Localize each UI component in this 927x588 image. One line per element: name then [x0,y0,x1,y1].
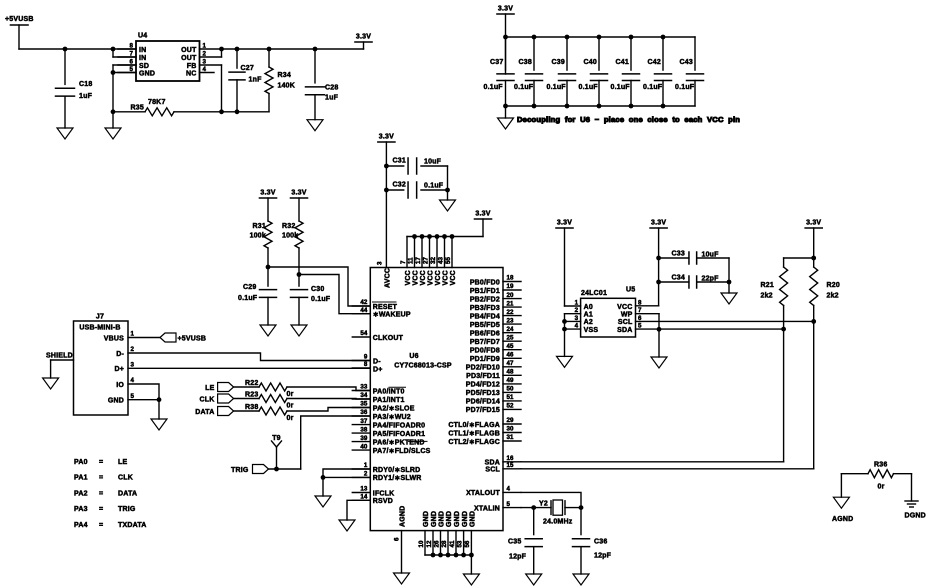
svg-text:29: 29 [507,417,514,424]
svg-text:VCC: VCC [420,270,427,285]
svg-text:3.3V: 3.3V [806,220,821,227]
svg-text:11: 11 [407,257,414,264]
svg-text:CTL0/∗FLAGA: CTL0/∗FLAGA [448,422,500,429]
svg-text:RDY0/∗SLRD: RDY0/∗SLRD [373,467,421,474]
svg-text:0.1uF: 0.1uF [579,84,599,91]
svg-text:CTL2/∗FLAGC: CTL2/∗FLAGC [448,439,500,446]
svg-text:22: 22 [507,309,514,316]
svg-text:Y2: Y2 [539,501,548,508]
svg-text:35: 35 [360,401,367,408]
svg-text:17: 17 [415,257,422,264]
svg-text:0r: 0r [878,484,885,491]
svg-text:R36: R36 [874,462,887,469]
svg-text:PA5/FIFOADR1: PA5/FIFOADR1 [373,431,425,438]
svg-text:24.0MHz: 24.0MHz [543,519,573,526]
svg-text:=: = [99,522,103,529]
svg-text:34: 34 [360,392,367,399]
svg-text:AGND: AGND [400,506,407,527]
svg-text:10uF: 10uF [424,159,442,166]
svg-text:GND: GND [423,511,430,527]
svg-text:C37: C37 [490,59,503,66]
svg-text:PD4/FD12: PD4/FD12 [466,382,500,389]
svg-text:22pF: 22pF [702,276,720,283]
svg-text:C34: C34 [672,275,685,282]
svg-text:PD0/FD8: PD0/FD8 [470,348,500,355]
svg-text:VSS: VSS [584,327,599,334]
svg-text:3.3V: 3.3V [291,190,306,197]
svg-text:9: 9 [364,354,368,361]
svg-text:0r: 0r [287,415,294,422]
svg-text:VBUS: VBUS [104,335,124,342]
svg-text:SHIELD: SHIELD [46,353,73,360]
svg-text:0.1uF: 0.1uF [611,84,631,91]
svg-text:GND: GND [462,511,469,527]
svg-text:CTL1/∗FLAGB: CTL1/∗FLAGB [448,430,500,437]
svg-text:18: 18 [507,275,514,282]
svg-text:=: = [99,459,103,466]
svg-text:12pF: 12pF [509,554,527,561]
svg-text:36: 36 [360,409,367,416]
svg-text:0.1uF: 0.1uF [311,296,331,303]
svg-text:100k: 100k [250,233,266,240]
svg-text:R20: R20 [827,282,840,289]
svg-text:IFCLK: IFCLK [373,490,395,497]
svg-text:C43: C43 [680,59,693,66]
svg-text:PB4/FD4: PB4/FD4 [470,313,500,320]
svg-text:55: 55 [445,257,452,264]
svg-text:24LC01: 24LC01 [581,290,607,297]
svg-text:3.3V: 3.3V [475,211,490,218]
svg-text:GND: GND [446,511,453,527]
svg-text:U5: U5 [626,287,635,294]
svg-text:14: 14 [360,494,367,501]
svg-text:3.3V: 3.3V [379,134,394,141]
svg-text:DATA: DATA [118,490,137,497]
svg-text:33: 33 [360,384,367,391]
svg-text:39: 39 [360,435,367,442]
svg-text:PA1/INT1: PA1/INT1 [373,397,405,404]
svg-text:PD1/FD9: PD1/FD9 [470,356,500,363]
svg-text:OUT: OUT [181,47,197,54]
svg-text:C30: C30 [311,286,324,293]
svg-text:C36: C36 [594,539,607,546]
svg-text:OUT: OUT [181,55,197,62]
svg-text:1: 1 [575,300,579,307]
svg-text:D-: D- [116,351,124,358]
svg-text:SDA: SDA [485,460,500,467]
svg-text:C18: C18 [79,81,92,88]
svg-text:=: = [99,475,103,482]
svg-text:C40: C40 [584,59,597,66]
svg-text:LE: LE [118,459,127,466]
svg-text:R21: R21 [761,282,774,289]
svg-text:15: 15 [507,462,514,469]
svg-text:44: 44 [360,307,367,314]
svg-text:C29: C29 [243,284,256,291]
svg-text:PD7/FD15: PD7/FD15 [466,407,500,414]
svg-text:D-: D- [373,358,381,365]
svg-text:42: 42 [360,299,367,306]
svg-text:51: 51 [507,394,514,401]
svg-text:SDA: SDA [617,327,632,334]
svg-text:10uF: 10uF [702,252,720,259]
svg-text:23: 23 [507,317,514,324]
svg-text:54: 54 [360,330,367,337]
svg-text:2: 2 [131,346,135,353]
svg-text:40: 40 [360,443,367,450]
svg-text:16: 16 [507,455,514,462]
svg-text:VCC: VCC [443,270,450,285]
svg-text:2k2: 2k2 [827,293,839,300]
svg-text:XTALOUT: XTALOUT [466,490,500,497]
svg-text:WP: WP [621,312,633,319]
svg-text:RSVD: RSVD [373,498,393,505]
svg-text:PB1/FD1: PB1/FD1 [470,288,500,295]
svg-text:=: = [99,506,103,513]
svg-text:PA7/∗FLD/SLCS: PA7/∗FLD/SLCS [373,448,431,455]
svg-text:AGND: AGND [832,516,853,523]
svg-text:53: 53 [456,540,463,547]
svg-text:DGND: DGND [905,513,926,520]
svg-text:TXDATA: TXDATA [118,522,147,529]
svg-text:6: 6 [394,537,401,541]
svg-text:PB3/FD3: PB3/FD3 [470,305,500,312]
svg-text:PA3: PA3 [74,506,88,513]
svg-text:IO: IO [116,382,124,389]
svg-text:1nF: 1nF [249,77,263,84]
svg-text:CLK: CLK [200,396,215,403]
svg-text:C33: C33 [672,251,685,258]
svg-text:GND: GND [439,511,446,527]
svg-text:RDY1/∗SLWR: RDY1/∗SLWR [373,475,422,482]
svg-text:SCL: SCL [618,319,633,326]
svg-text:7: 7 [400,260,407,264]
svg-text:VCC: VCC [413,270,420,285]
svg-text:0r: 0r [287,403,294,410]
svg-text:PD5/FD13: PD5/FD13 [466,390,500,397]
svg-text:C35: C35 [508,539,521,546]
svg-text:NC: NC [186,70,197,77]
svg-text:R35: R35 [131,105,144,112]
svg-text:100k: 100k [282,233,298,240]
svg-text:PA2/∗SLOE: PA2/∗SLOE [373,405,415,412]
svg-text:21: 21 [507,300,514,307]
svg-text:RESET: RESET [373,304,398,311]
svg-text:5: 5 [507,501,511,508]
svg-text:1: 1 [364,462,368,469]
svg-text:140K: 140K [278,83,296,90]
svg-text:GND: GND [139,70,155,77]
svg-text:4: 4 [575,323,579,330]
svg-text:∗WAKEUP: ∗WAKEUP [373,312,411,319]
svg-text:CLKOUT: CLKOUT [373,335,404,342]
svg-text:CY7C68013-CSP: CY7C68013-CSP [394,363,452,370]
svg-text:VCC: VCC [435,270,442,285]
svg-text:2k2: 2k2 [761,293,773,300]
svg-text:PD6/FD14: PD6/FD14 [466,399,500,406]
svg-text:2: 2 [575,307,579,314]
svg-text:PA0: PA0 [74,459,88,466]
svg-text:48: 48 [507,369,514,376]
svg-text:0.1uF: 0.1uF [675,84,695,91]
svg-text:3: 3 [131,362,135,369]
svg-text:C41: C41 [616,59,629,66]
svg-text:R23: R23 [245,392,258,399]
svg-text:37: 37 [360,418,367,425]
svg-text:49: 49 [507,377,514,384]
svg-text:VCC: VCC [617,304,632,311]
svg-text:46: 46 [507,352,514,359]
svg-text:25: 25 [507,334,514,341]
svg-text:PB0/FD0: PB0/FD0 [470,279,500,286]
svg-text:43: 43 [437,257,444,264]
svg-text:C28: C28 [325,85,338,92]
svg-text:30: 30 [507,426,514,433]
svg-text:VCC: VCC [405,270,412,285]
svg-text:GND: GND [431,511,438,527]
svg-text:3.3V: 3.3V [498,6,513,13]
svg-text:A2: A2 [584,319,593,326]
svg-text:PB7/FD7: PB7/FD7 [470,339,500,346]
svg-text:1: 1 [131,331,135,338]
svg-text:D+: D+ [114,366,124,373]
svg-text:31: 31 [507,434,514,441]
svg-text:3: 3 [575,315,579,322]
svg-text:GND: GND [108,398,124,405]
svg-text:0.1uF: 0.1uF [514,84,534,91]
svg-text:+5VUSB: +5VUSB [178,335,207,342]
svg-text:3.3V: 3.3V [260,190,275,197]
svg-text:J7: J7 [96,314,104,321]
svg-text:32: 32 [430,257,437,264]
svg-text:PA3/∗WU2: PA3/∗WU2 [373,414,411,421]
svg-text:Decoupling for U6 − place one: Decoupling for U6 − place one close to e… [517,115,740,124]
svg-text:26: 26 [433,540,440,547]
svg-text:PD3/FD11: PD3/FD11 [466,373,500,380]
svg-text:3: 3 [377,261,384,265]
svg-text:R38: R38 [245,404,258,411]
svg-text:PD2/FD10: PD2/FD10 [466,365,500,372]
svg-text:GND: GND [470,511,477,527]
svg-text:38: 38 [360,426,367,433]
svg-text:PA6/∗PKTEND: PA6/∗PKTEND [373,439,425,446]
svg-text:T9: T9 [272,435,281,442]
svg-text:0.1uF: 0.1uF [547,84,567,91]
svg-text:VCC: VCC [450,270,457,285]
svg-text:1uF: 1uF [79,93,93,100]
svg-text:PA4: PA4 [74,522,88,529]
svg-text:TRIG: TRIG [231,467,249,474]
svg-text:3.3V: 3.3V [356,34,371,41]
svg-text:3.3V: 3.3V [651,220,666,227]
svg-text:19: 19 [507,283,514,290]
svg-text:C39: C39 [552,59,565,66]
svg-text:AVCC: AVCC [385,268,392,288]
svg-text:=: = [99,490,103,497]
svg-text:VCC: VCC [428,270,435,285]
svg-text:C27: C27 [241,65,254,72]
svg-text:4: 4 [507,486,511,493]
svg-text:CLK: CLK [118,475,133,482]
svg-text:56: 56 [464,540,471,547]
svg-text:28: 28 [441,540,448,547]
svg-text:A0: A0 [584,304,593,311]
svg-text:47: 47 [507,360,514,367]
svg-text:FB: FB [187,63,197,70]
svg-text:52: 52 [507,403,514,410]
svg-text:TRIG: TRIG [118,506,136,513]
svg-text:SCL: SCL [485,467,500,474]
svg-text:R34: R34 [278,72,291,79]
svg-text:SD: SD [139,63,149,70]
svg-text:78K7: 78K7 [148,99,166,106]
svg-text:PA0/INT0: PA0/INT0 [373,388,405,395]
svg-text:0.1uF: 0.1uF [484,84,504,91]
svg-text:U4: U4 [138,33,147,40]
svg-text:0.1uF: 0.1uF [424,183,444,190]
svg-text:PA4/FIFOADR0: PA4/FIFOADR0 [373,422,425,429]
svg-text:8: 8 [364,361,368,368]
svg-text:C32: C32 [393,182,406,189]
svg-text:PB2/FD2: PB2/FD2 [470,296,500,303]
svg-text:LE: LE [205,385,214,392]
svg-text:IN: IN [139,55,146,62]
svg-text:PA1: PA1 [74,475,88,482]
svg-text:GND: GND [454,511,461,527]
svg-text:10: 10 [418,540,425,547]
svg-text:8: 8 [130,43,134,50]
svg-text:0.1uF: 0.1uF [238,295,258,302]
svg-text:41: 41 [449,540,456,547]
svg-text:R31: R31 [253,223,266,230]
svg-text:3.3V: 3.3V [557,220,572,227]
svg-text:D+: D+ [373,366,383,373]
svg-text:0.1uF: 0.1uF [643,84,663,91]
svg-text:45: 45 [507,343,514,350]
svg-text:20: 20 [507,292,514,299]
svg-text:PB6/FD6: PB6/FD6 [470,331,500,338]
svg-text:4: 4 [131,377,135,384]
svg-text:PB5/FD5: PB5/FD5 [470,322,500,329]
svg-text:2: 2 [364,471,368,478]
svg-text:R32: R32 [282,223,295,230]
svg-text:C42: C42 [648,59,661,66]
svg-text:12: 12 [426,540,433,547]
svg-text:U6: U6 [409,353,418,360]
svg-text:R22: R22 [245,380,258,387]
svg-text:C38: C38 [519,59,532,66]
svg-text:5: 5 [131,393,135,400]
svg-text:+5VUSB: +5VUSB [5,16,34,23]
svg-text:50: 50 [507,386,514,393]
svg-text:PA2: PA2 [74,490,88,497]
svg-text:XTALIN: XTALIN [474,505,500,512]
svg-text:13: 13 [360,486,367,493]
svg-text:1uF: 1uF [325,95,339,102]
svg-text:0r: 0r [287,391,294,398]
svg-text:IN: IN [139,47,146,54]
svg-text:24: 24 [507,326,514,333]
svg-text:C31: C31 [393,158,406,165]
svg-text:USB-MINI-B: USB-MINI-B [79,325,120,332]
svg-text:DATA: DATA [195,409,214,416]
svg-text:12pF: 12pF [594,553,612,560]
svg-text:27: 27 [422,257,429,264]
svg-text:A1: A1 [584,312,593,319]
